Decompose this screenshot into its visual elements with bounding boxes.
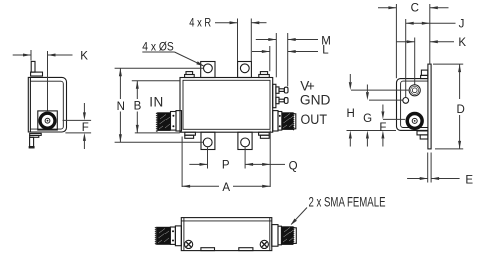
dimension B [132,81,180,133]
svg-text:N: N [117,101,125,113]
dimension J [406,19,456,97]
hole S bottom tab 2 [241,138,250,147]
OUT connector flange [273,111,278,131]
pin boss [273,84,276,107]
hole S bottom tab 1 [203,138,212,147]
bottom view right connector nut [281,226,294,245]
dimension C [378,4,449,78]
svg-text:V+: V+ [300,79,315,94]
top tab 1 [201,62,215,78]
right view GND feedthrough circle [403,98,409,104]
dimension G [367,85,402,147]
bottom view left connector nut [155,227,171,245]
svg-text:F: F [379,122,386,134]
svg-text:2 x SMA FEMALE: 2 x SMA FEMALE [309,195,386,210]
svg-text:P: P [222,160,230,172]
right view V+ feedthrough circles [409,85,420,96]
dimension D [433,64,463,149]
left view bottom strip [30,137,34,147]
bottom view screw slots [186,242,267,247]
left view bottom foot step1 [30,133,42,135]
bottom view screw 2 [260,240,268,248]
bottom view body outer [181,218,271,251]
dimension Q [245,131,285,188]
left view top tab cap [31,72,43,76]
OUT connector end cap [293,114,296,129]
svg-text:K: K [458,37,466,49]
dimension N [115,68,204,142]
front body outer [180,78,273,133]
right view body outline [397,79,428,131]
dimension 4xØS leader [142,52,203,66]
svg-text:L: L [322,45,329,57]
top left side-tab cap [186,72,193,75]
svg-text:J: J [459,19,465,31]
left view SMA square plate [38,111,58,130]
top right side-tab cap [260,72,267,75]
bottom view right connector flange [272,225,278,247]
svg-text:B: B [134,101,142,113]
dimension M [256,33,318,86]
svg-text:Q: Q [289,160,298,172]
dimension P [189,147,245,168]
left view inner lip [30,81,63,129]
svg-text:E: E [465,174,473,186]
right view flange plate [428,64,431,149]
IN connector dot plate [171,112,177,131]
svg-text:H: H [347,108,355,120]
IN connector flange [176,111,182,131]
left view bottom strip foot [29,147,34,148]
svg-text:G: G [363,113,372,125]
svg-text:A: A [222,182,230,194]
OUT connector hex nut [282,112,295,130]
bottom tab 2 [238,132,252,149]
svg-text:IN: IN [149,94,163,109]
pin GND [276,97,279,103]
svg-text:F: F [82,122,89,134]
dimension 4xR [215,19,267,62]
left view top tab strip [31,61,35,72]
hole S top tab 1 [204,64,213,73]
bottom view notch 1 [201,248,215,251]
svg-text:OUT: OUT [301,112,328,127]
bottom view screw 1 [185,240,193,248]
left view flange edge line [29,77,31,132]
right view inner lip [401,81,428,127]
dimension K (right view) [396,38,454,85]
dimension L [252,46,318,71]
dimension F (left view) [63,103,92,149]
bottom view left connector dots [172,230,174,232]
dimension F (right view) [383,105,405,147]
front body inner lip [183,80,270,129]
bottom view notch 2 [239,248,253,251]
svg-text:4 x R: 4 x R [189,18,211,30]
right view top tab [421,70,427,75]
svg-text:K: K [80,50,88,62]
left view SMA connector circles [38,112,56,130]
right view SMA connector circles [406,112,424,130]
svg-text:C: C [411,3,419,15]
IN connector dots [172,115,174,117]
bottom view left connector dot plate [170,227,175,244]
dimension E [407,153,460,183]
left view body outline [28,77,66,132]
dimension A [182,137,270,188]
pin V+ [276,87,279,93]
OUT connector dot plate [278,112,282,131]
top tab 2 [238,62,252,78]
left view bottom foot step2 [30,135,39,137]
dimension H [347,74,409,147]
svg-text:4 x ØS: 4 x ØS [142,41,174,53]
right view bottom tab [417,131,428,135]
bottom view right connector end cap [293,228,296,244]
svg-text:GND: GND [300,92,331,107]
callout 2 x SMA FEMALE [291,208,307,225]
bottom view right connector dot plate [278,226,281,245]
IN connector hex nut [156,112,171,132]
hole S top tab 2 [240,64,249,73]
bottom view inner lines [183,218,185,251]
bottom tab 1 [201,132,215,149]
bottom left side-tab cap [185,132,196,135]
bottom right side-tab cap [259,132,270,135]
dimension K (left view) [13,50,73,111]
bottom view left connector flange [175,226,181,246]
OUT connector dots [279,115,281,117]
svg-text:D: D [457,104,465,116]
